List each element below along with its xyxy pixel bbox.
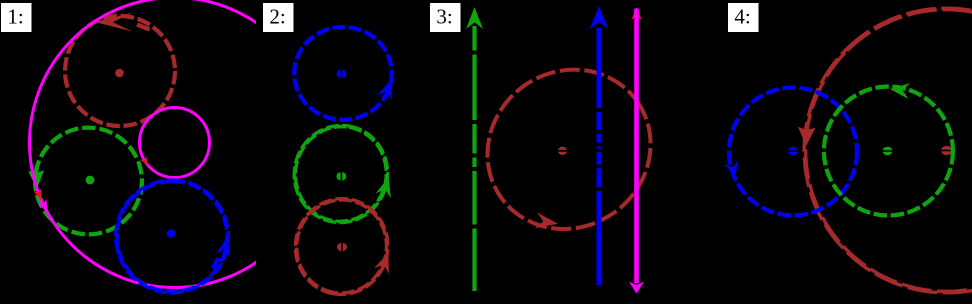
svg-text:1:: 1:	[7, 5, 23, 29]
svg-text:4:: 4:	[734, 5, 750, 29]
svg-text:3:: 3:	[436, 5, 452, 29]
svg-text:2:: 2:	[269, 5, 285, 29]
